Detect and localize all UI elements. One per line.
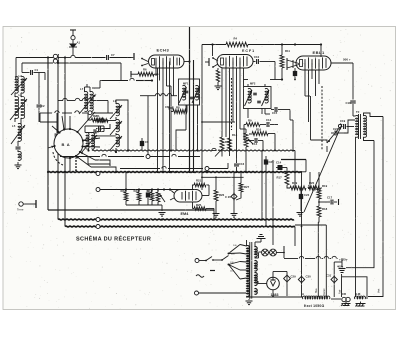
resistor R24 vertical: [150, 192, 154, 201]
detector diode network: [262, 141, 264, 151]
mains fan node b: [228, 264, 230, 266]
tube ECF1 envelope: [217, 55, 253, 69]
svg-text:1883: 1883: [271, 293, 279, 297]
mains terminal lower: [195, 291, 199, 295]
resistor R9: [246, 123, 260, 127]
resistor R14 vertical: [228, 138, 232, 150]
power transformer mid winding: [255, 261, 258, 271]
ground terminal Terre: [19, 202, 23, 206]
electrolytic C29 diamond: [284, 275, 291, 282]
resistor R11 vertical: [280, 55, 284, 68]
capacitor C18 series: [350, 100, 356, 102]
IF transformer MF1 box: [179, 79, 200, 105]
coil L4: [21, 96, 25, 118]
EM4 grid leads: [170, 190, 174, 194]
dial lamp LP1: [259, 251, 262, 253]
coil L8: [90, 91, 93, 111]
capacitor C20 diamond: [233, 172, 235, 193]
trimmer arrow through L1 L2: [11, 78, 27, 95]
switch spoke lower-right a: [80, 152, 95, 160]
wire padder joins: [170, 113, 172, 151]
wire MF2 top leads: [247, 84, 249, 87]
svg-text:C14: C14: [276, 161, 282, 165]
wire x273 down: [272, 160, 274, 245]
power transformer bottom winding: [255, 289, 258, 295]
heater leads ECH3: [142, 59, 148, 62]
MF1 internal caps: [185, 90, 189, 92]
svg-text:400v: 400v: [337, 265, 344, 269]
svg-text:C 20: C 20: [225, 195, 231, 199]
junction dots left buses: [47, 56, 49, 58]
wire y177.3 feed: [202, 176, 244, 178]
svg-text:+125v: +125v: [339, 258, 348, 262]
coil L2: [21, 76, 24, 93]
bus terminal circle y226.5: [96, 225, 100, 229]
switch rotor dashed arc: [53, 152, 63, 165]
wire x290 down from C15: [289, 110, 291, 121]
MF2 internal caps: [253, 92, 257, 94]
trimmer arrow through L5: [11, 125, 25, 144]
AC squiggle: [196, 275, 204, 278]
svg-text:C31: C31: [326, 274, 332, 278]
svg-text:L5: L5: [12, 124, 16, 128]
wire left vertical x16: [15, 58, 17, 79]
svg-text:C30: C30: [306, 275, 312, 279]
switch spoke upper-right long: [78, 112, 96, 132]
bus y219.5: [58, 218, 294, 221]
svg-text:R21: R21: [196, 179, 202, 183]
tube EBL1 envelope: [296, 56, 331, 70]
capacitor C1: [22, 72, 30, 74]
wire vertical x58: [57, 63, 59, 220]
svg-text:E C F 1: E C F 1: [242, 49, 254, 53]
svg-text:R17: R17: [277, 176, 283, 180]
svg-text:R16: R16: [256, 128, 262, 132]
ground under BM coil: [360, 302, 362, 304]
mains fan node a: [228, 253, 230, 255]
output transformer T2 primary: [353, 115, 356, 117]
capacitor C3: [38, 100, 40, 104]
svg-text:R19: R19: [322, 184, 328, 188]
svg-text:L2: L2: [19, 74, 23, 78]
wire left vertical x22: [21, 63, 23, 73]
svg-text:R8: R8: [176, 106, 180, 110]
resistor R1: [94, 120, 96, 122]
capacitor C17 right: [319, 201, 330, 203]
tube EM4 envelope: [174, 190, 202, 203]
power transformer core: [249, 242, 251, 299]
capacitor C24: [331, 132, 334, 134]
bus terminal circle x98 y174: [96, 172, 100, 176]
capacitor C19 left: [340, 124, 342, 130]
tube 1883 envelope: [267, 277, 280, 290]
svg-text:ECH3: ECH3: [157, 48, 170, 53]
transformer tap leads: [240, 245, 247, 247]
ground below transformer: [248, 299, 250, 300]
wire ECH3 anode right: [184, 61, 190, 63]
resistor R17 vertical: [285, 173, 289, 186]
resistor R22 vertical: [124, 192, 128, 201]
coil L10: [92, 133, 95, 150]
trimmer arrow through L3 L4: [10, 99, 27, 120]
wire vertical x65: [64, 58, 66, 227]
wire x248 MF2 bottom down: [247, 109, 249, 119]
coil T1 primary: [116, 103, 119, 115]
trimmer arrow through L9 L10: [81, 135, 97, 153]
electrolytic C30 diamond: [298, 276, 304, 282]
antenna terminal A1: [69, 30, 77, 48]
svg-text:R6: R6: [143, 68, 147, 72]
AF potentiometer with arrow: [156, 192, 160, 202]
ground under C22: [297, 212, 304, 214]
small dash arrow: [210, 270, 215, 272]
resistor R27 vertical: [240, 172, 242, 183]
coil L5: [18, 123, 21, 141]
coil T1 secondary: [116, 119, 119, 131]
band switch contact S1a: [53, 54, 57, 58]
ground EM4 area: [159, 212, 166, 214]
wire x295 down to PSU: [294, 151, 296, 189]
svg-text:SCHÉMA DU RÉCEPTEUR: SCHÉMA DU RÉCEPTEUR: [76, 235, 151, 243]
svg-text:C29: C29: [291, 275, 297, 279]
grid cap lead ECH3: [133, 53, 135, 60]
wire T2 secondary top to right: [364, 113, 384, 117]
switch spoke right b: [83, 146, 101, 149]
wire y80 bold: [100, 80, 128, 82]
svg-text:A: A: [302, 292, 304, 296]
grid cap ECF1: [205, 61, 209, 63]
output transformer T2 core: [358, 114, 360, 139]
wire y122 mid: [202, 121, 222, 123]
wire 1883 cathode to winding: [258, 283, 267, 285]
capacitor C6 box: [85, 125, 104, 127]
wire mains lower to transformer: [199, 292, 247, 294]
bus elbow x48 to y210: [48, 209, 214, 211]
resistor R16 horizontal: [252, 132, 268, 136]
svg-text:R1: R1: [96, 114, 100, 118]
wire after field coil: [331, 298, 341, 300]
capacitor C9 blob: [141, 138, 143, 141]
rotor contact dashes below switch: [75, 157, 77, 172]
svg-text:C17: C17: [327, 196, 333, 200]
wire grid line y100.5 with hops: [58, 100, 63, 102]
wire osc cluster connects: [108, 120, 116, 122]
resistor R8: [173, 110, 187, 114]
power transformer heater winding: [255, 247, 258, 257]
wire x356 long down: [355, 146, 357, 297]
wire 1883 output up: [272, 272, 274, 278]
svg-text:Vert: Vert: [378, 288, 381, 293]
switch spoke up a: [62, 116, 64, 130]
volume potentiometer R15: [244, 133, 248, 147]
wire x100 elbow: [99, 81, 101, 89]
switch spoke down: [69, 158, 71, 172]
dial cord dashed x231.5: [231, 78, 233, 130]
wire antenna down to switch line: [72, 48, 74, 56]
capacitor C14: [254, 138, 256, 143]
svg-text:500 +: 500 +: [343, 58, 351, 62]
capacitor C5: [98, 126, 100, 131]
svg-text:C5: C5: [95, 130, 99, 134]
wire x321 down to EBL1: [320, 45, 322, 58]
1883 filament: [271, 281, 276, 286]
resistor R18 vertical: [317, 206, 321, 217]
wire C30 leads: [301, 259, 303, 275]
wire y156.5 with jack: [60, 156, 100, 158]
coil L6: [18, 151, 21, 160]
junction heater: [188, 60, 190, 62]
wire x302 long down: [301, 172, 303, 259]
svg-text:EBL1: EBL1: [313, 50, 326, 55]
wire x121 corner down: [120, 63, 122, 81]
wire x315 jog: [315, 90, 317, 96]
svg-text:R22: R22: [121, 189, 127, 193]
wire x310 long down: [308, 112, 310, 122]
svg-text:C25: C25: [269, 160, 275, 164]
resistor R23 vertical: [137, 192, 141, 201]
wire 1883 bottom: [272, 290, 274, 296]
wire x212 vertical: [212, 45, 214, 57]
svg-text:C22: C22: [304, 193, 310, 197]
wire Marron x326.3: [325, 225, 327, 297]
ground under C20: [231, 213, 238, 215]
wire x57 from y113 line: [56, 113, 58, 128]
MF2 secondary coil: [265, 88, 268, 103]
svg-text:C19: C19: [340, 119, 346, 123]
band switch rotor circle B A: [54, 129, 83, 158]
coil L3: [15, 96, 19, 118]
svg-text:C24: C24: [333, 127, 339, 131]
antenna-like symbol above transformer: [260, 239, 262, 243]
junction dots lower buses: [161, 218, 163, 220]
ECH3 pin wires down: [155, 62, 157, 77]
IF transformer MF2 box: [244, 87, 272, 109]
wire x195 down from MF1: [197, 105, 199, 151]
capacitor C14b blob: [276, 167, 278, 169]
wire x374 down to 268: [346, 141, 374, 268]
svg-text:C16: C16: [239, 162, 245, 166]
svg-text:C7: C7: [111, 53, 115, 57]
wire main vertical bus x48: [47, 58, 49, 211]
coil T1 tertiary: [116, 134, 119, 146]
svg-text:MF2: MF2: [250, 82, 256, 86]
capacitor C10: [253, 61, 256, 63]
dial lamp LP2: [270, 249, 277, 256]
svg-text:R27: R27: [244, 185, 250, 189]
resistor R26 vertical: [215, 177, 217, 190]
capacitor C2a: [17, 143, 19, 146]
svg-text:C18: C18: [346, 101, 352, 105]
capacitor C8: [170, 104, 172, 106]
switch spoke up b: [69, 116, 71, 129]
power transformer HT winding: [255, 273, 258, 286]
wire EM4 top: [192, 185, 194, 190]
svg-text:Exct 1050Ω: Exct 1050Ω: [304, 304, 324, 308]
wire oscillator coupling y113 with hops: [40, 112, 52, 114]
svg-text:B.M.: B.M.: [355, 292, 361, 296]
svg-text:R25: R25: [196, 203, 202, 207]
speaker coil BM: [355, 296, 366, 299]
wire x45 down: [44, 73, 46, 81]
wire y190 line: [98, 189, 196, 191]
resistor R25 bottom: [194, 207, 206, 211]
wire AVC elbow right: [281, 159, 306, 161]
tone resistor R19 vertical: [317, 189, 321, 199]
svg-text:C8: C8: [165, 105, 169, 109]
svg-text:C9: C9: [145, 140, 149, 144]
svg-text:C15: C15: [272, 111, 278, 115]
heater leads ECF1: [213, 58, 218, 61]
wire x139 down: [138, 190, 140, 193]
coil L9: [86, 133, 89, 150]
wire diag to jack line: [215, 149, 222, 157]
tuning diagonal link: [304, 124, 342, 212]
wire x262 down: [261, 108, 263, 114]
wire y258 left part: [284, 258, 286, 260]
svg-text:CR: CR: [342, 292, 346, 296]
capacitor C13: [263, 124, 266, 126]
wire x40 vertical mid: [38, 120, 40, 122]
svg-text:R9: R9: [248, 119, 252, 123]
electrolytic C31 diamond: [331, 276, 337, 282]
wire B+ top y44.5: [202, 44, 226, 46]
1883 anode bar: [271, 279, 276, 281]
capacitor C15 under MF2: [271, 109, 274, 111]
mains switch levers: [199, 260, 206, 262]
output transformer T2 secondary: [364, 116, 367, 138]
wire x126 down from bus: [125, 172, 127, 192]
wire +125v line: [286, 258, 298, 260]
wire top horizontal y63: [22, 62, 53, 64]
resistor R21 top: [194, 183, 206, 187]
resistor R2: [91, 118, 104, 122]
wire C31 area to BM coil: [342, 277, 367, 299]
main bus y172: [48, 171, 302, 174]
wire x148 down to jack: [147, 96, 149, 155]
wire bottom y296: [246, 296, 303, 298]
coil L1: [15, 76, 18, 93]
wire x128 down: [127, 106, 129, 128]
svg-text:R4: R4: [234, 37, 238, 41]
wire x284 heater down: [283, 246, 285, 258]
ground stub on +125 line: [341, 259, 343, 268]
mains voltage fan lines: [229, 245, 241, 254]
power transformer primary winding: [247, 246, 250, 297]
electrolytic C21: [147, 190, 149, 193]
wire top horizontal y57.5: [16, 57, 53, 59]
wire x244 from R9 down: [243, 125, 245, 141]
tube ECH3 cathode bar: [152, 59, 155, 66]
wire heater vertical x193.5: [193, 60, 195, 172]
MF2 primary coil: [248, 88, 251, 103]
wire y122 short: [40, 121, 57, 123]
svg-text:Terre: Terre: [17, 208, 24, 212]
svg-text:A1: A1: [77, 41, 81, 45]
wire second column top: [84, 87, 86, 92]
diode cone EBL1 input: [287, 60, 299, 64]
svg-text:R18: R18: [322, 207, 328, 211]
svg-text:R11: R11: [285, 49, 290, 53]
MF1 secondary coil: [196, 85, 199, 100]
wire EM4 right leads: [202, 195, 209, 197]
junction dots on bus y172: [91, 171, 93, 173]
wire second column bottom to bus: [88, 149, 90, 151]
svg-text:Bleu: Bleu: [315, 288, 318, 293]
resistor R6: [130, 71, 132, 78]
resistor R4: [226, 42, 248, 47]
ground under voice coil: [345, 302, 347, 304]
ground under R26: [213, 213, 220, 215]
svg-text:L7: L7: [80, 87, 84, 91]
svg-text:T2: T2: [356, 110, 360, 114]
wire T2 primary bottom: [355, 137, 357, 146]
svg-text:C14: C14: [252, 142, 258, 146]
transformer top leads: [246, 240, 248, 246]
wire Bleu x318.3: [317, 222, 319, 297]
wire C31 top: [334, 261, 342, 263]
tube ECF1 cathode bar: [221, 58, 224, 65]
wire x233 x240 ends: [232, 120, 234, 122]
switch spoke right a: [83, 138, 100, 141]
tube ECH3 envelope: [149, 55, 185, 68]
dial cord dashed x322: [321, 86, 323, 150]
wire x202 vertical: [201, 45, 203, 81]
wire y164 short: [88, 163, 110, 165]
wire x183 down from MF1: [185, 105, 187, 131]
bus terminal circle y219.5: [96, 218, 100, 222]
MF1 primary coil: [183, 85, 186, 100]
wire x383 down right side: [368, 117, 383, 297]
svg-text:R14: R14: [232, 133, 238, 137]
bus y226.5: [65, 225, 295, 228]
wire phono area: [311, 140, 328, 143]
wire x353 down: [352, 63, 354, 100]
wire heater vertical x189.5: [189, 27, 191, 172]
wire x39 vertical: [38, 73, 40, 101]
mains terminal upper: [195, 259, 199, 263]
switch spoke lower-right b: [76, 156, 91, 167]
ground under left coils: [17, 162, 19, 165]
switch spoke up-left: [52, 126, 60, 133]
cathode resistor R5: [216, 70, 220, 82]
resistor R13 vertical: [220, 137, 224, 149]
ECF1 pin wires down: [221, 68, 223, 122]
wire x287 down: [286, 282, 288, 296]
field coil Exct: [303, 296, 330, 299]
voice coil circles: [342, 297, 346, 301]
wire y168.5 with jack: [120, 168, 160, 170]
coil L7: [85, 91, 88, 111]
wire x310.5 to phono switch: [310, 96, 312, 140]
wire Noir x341.5: [341, 274, 343, 297]
phono switch lever: [327, 127, 340, 143]
resistor R19b horizontal: [290, 186, 306, 190]
electrolytic C22: [300, 188, 302, 194]
wire staircase lower right of switch a: [95, 160, 110, 166]
band switch contact S1b: [53, 59, 57, 63]
svg-text:B A: B A: [62, 142, 71, 147]
svg-text:L4: L4: [19, 93, 23, 97]
svg-text:C2: C2: [41, 104, 45, 108]
wire y79.5 node line: [270, 79, 282, 81]
wire y86 from pin: [167, 85, 172, 87]
wire C10 to EBL1 grid: [274, 62, 276, 80]
wire R6 to x159: [154, 73, 158, 75]
svg-text:R23: R23: [134, 189, 140, 193]
svg-text:C13: C13: [266, 118, 272, 122]
wire AVC line y150.5 with hops: [92, 149, 212, 152]
capacitor C25 blob: [264, 159, 268, 164]
